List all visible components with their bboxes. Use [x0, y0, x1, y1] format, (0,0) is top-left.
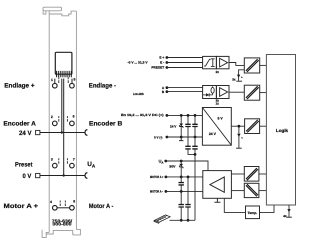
encoder input box U5 [203, 86, 217, 99]
ground tick 0V rail [179, 137, 183, 141]
wire UA to motor driver [166, 161, 208, 171]
terminal 1 [53, 83, 58, 88]
wire isolator U12 to logic [259, 190, 267, 192]
node 24V [166, 114, 169, 117]
junction dot 24V internal [61, 131, 63, 133]
svg-text:Preset: Preset [15, 162, 33, 169]
svg-text:24 V: 24 V [19, 130, 32, 137]
module top profile with latch notch [49, 11, 76, 16]
wire 0V feed [40, 175, 85, 177]
terminal 6 [70, 121, 75, 126]
svg-text:Encoder B: Encoder B [89, 121, 123, 128]
svg-text:24 V: 24 V [209, 132, 217, 136]
opto diode symbol [203, 94, 213, 96]
buffer triangle [220, 88, 228, 97]
terminal 4 [53, 206, 58, 211]
svg-text:1: 1 [51, 78, 53, 82]
svg-text:1x: 1x [216, 101, 220, 105]
isolator U4 [244, 58, 259, 73]
junction dots 0V rail [180, 136, 183, 139]
wire buffer to isolator 2 [229, 91, 244, 93]
svg-text:B: B [162, 90, 165, 94]
svg-text:6: 6 [73, 114, 75, 118]
svg-text:UA: UA [159, 159, 164, 164]
row4 link wire between terminals 4 and 8 [57, 207, 70, 209]
capacitor C6 motor- to rail [180, 191, 182, 220]
svg-text:-0 V ... 31,3 V: -0 V ... 31,3 V [128, 61, 149, 65]
DC/DC converter U8 [202, 108, 231, 146]
svg-text:UA: UA [87, 161, 96, 169]
svg-text:Motor A +: Motor A + [4, 203, 39, 210]
socket arc 0V [85, 173, 87, 179]
capacitor C7 motor+ to rail [187, 177, 189, 220]
svg-text:Low aktiv: Low aktiv [133, 92, 144, 96]
junction dot 0V internal [63, 174, 65, 176]
isolator U7 [244, 85, 259, 100]
terminal 7 [70, 163, 75, 168]
wire isolator3 to logic [260, 125, 267, 127]
wire PRESET [167, 67, 203, 69]
wire pin1 to terminal 1 [54, 79, 56, 84]
clamp marks row3 [59, 158, 68, 164]
wire A [167, 87, 203, 89]
wire B [167, 91, 203, 93]
wire pin5 to terminal 5 [71, 79, 73, 84]
svg-text:Temp.: Temp. [248, 211, 258, 215]
zener D1 24V branch [180, 115, 182, 137]
encoder buffer box U6 [216, 86, 229, 99]
module left edge [48, 11, 50, 233]
clamp marks row4 [60, 201, 65, 207]
driver triangle [210, 177, 224, 192]
isolator U9 [245, 119, 260, 134]
svg-text:E -: E - [160, 61, 164, 65]
capacitor C2 plates lower [185, 146, 190, 149]
svg-text:30V: 30V [169, 165, 176, 169]
input filter box U2 [203, 56, 217, 68]
node E- [166, 61, 169, 64]
ground G3 [214, 198, 220, 202]
svg-text:PRESET: PRESET [151, 66, 164, 70]
wire buffer to isolator 1 [229, 63, 244, 66]
svg-text:000-800: 000-800 [53, 222, 73, 227]
0V feed square terminal [36, 173, 40, 177]
svg-text:7: 7 [73, 157, 75, 161]
junction dot ground branch [238, 125, 241, 128]
node UA [164, 160, 167, 163]
socket arc 24V [85, 130, 87, 136]
wire driver out B [231, 190, 244, 192]
node MOTOR A- [165, 190, 168, 193]
ground G4 [288, 205, 290, 217]
svg-text:2x: 2x [216, 70, 220, 74]
svg-text:MOTOR A -: MOTOR A - [150, 190, 163, 194]
capacitor C3 branch to system rail [194, 115, 196, 220]
wire driver to temp sensor [224, 198, 245, 212]
svg-text:24 V: 24 V [170, 125, 177, 129]
terminal 5 [70, 83, 75, 88]
capacitor C4 plates lower [192, 146, 197, 149]
svg-text:Motor A -: Motor A - [89, 203, 114, 210]
24V feed square terminal [36, 130, 40, 134]
wire isolator1 to logic [260, 64, 267, 66]
node 0V [166, 136, 169, 139]
wire temp to logic [260, 205, 275, 212]
node MOTOR A+ [165, 176, 168, 179]
buffer box U3 [216, 56, 229, 68]
module top-left latch hook [43, 11, 46, 14]
isolator U12 [244, 183, 259, 197]
wire isolator ground stub [239, 70, 245, 81]
ground G1 [237, 75, 240, 78]
svg-text:3: 3 [51, 157, 53, 161]
wire 24V supply [167, 114, 203, 116]
motor driver U10 [203, 171, 232, 199]
wire isolator U11 to logic [259, 173, 267, 175]
module bottom left ledge [46, 232, 49, 234]
svg-text:3x: 3x [232, 77, 236, 81]
terminal 8 [70, 206, 75, 211]
module right edge [75, 11, 77, 230]
node B [166, 90, 169, 93]
junction dots bottom rail [180, 219, 183, 222]
schmitt symbol [204, 59, 211, 66]
junction dot join [194, 153, 197, 156]
node A [166, 86, 169, 89]
wire connector to 24V line [61, 79, 63, 133]
blade contact wedge [154, 215, 170, 223]
bottom system rail [170, 219, 196, 221]
wire E- [167, 62, 203, 64]
node E+ [166, 56, 169, 59]
svg-text:0 V (-): 0 V (-) [154, 136, 162, 140]
wire converter to isolator 3 [231, 125, 244, 127]
svg-text:Endlage -: Endlage - [89, 82, 116, 89]
ground G2 branch [238, 126, 240, 148]
connector housing on module [55, 52, 72, 74]
clamp marks row1 [59, 77, 68, 83]
temp sensor box [246, 206, 260, 219]
wire driver out A [231, 173, 244, 175]
svg-text:4: 4 [50, 200, 52, 204]
svg-text:Endlage +: Endlage + [4, 82, 35, 89]
buffer triangle [220, 58, 228, 67]
connector pin teeth [57, 71, 72, 77]
junction dots 24V rail [180, 114, 183, 117]
svg-text:E +: E + [159, 56, 164, 60]
svg-text:Logik: Logik [276, 128, 289, 133]
svg-text:4x: 4x [283, 214, 287, 218]
svg-text:8: 8 [73, 200, 75, 204]
terminal 2 [53, 121, 58, 126]
logic block U13 [266, 55, 295, 206]
clamp marks row2 [59, 116, 68, 122]
wire E+ [167, 57, 203, 59]
module bottom rail foot [42, 229, 80, 237]
wire isolator2 to logic [260, 92, 267, 94]
svg-text:5 V: 5 V [218, 117, 224, 121]
zener D2 30V branch [180, 161, 182, 177]
wire 0V supply [167, 136, 203, 138]
terminal 3 [53, 163, 58, 168]
svg-text:MOTOR A +: MOTOR A + [150, 175, 164, 179]
svg-text:Encoder A: Encoder A [3, 121, 36, 128]
wire MOTOR A- [166, 190, 203, 192]
wire MOTOR A+ [166, 176, 203, 178]
isolator U11 [244, 167, 259, 182]
wire connector to 0V line [63, 79, 65, 176]
svg-text:En 19,2 ... 31,3 V DC (+): En 19,2 ... 31,3 V DC (+) [121, 113, 164, 117]
capacitor C5 between motor lines [180, 177, 182, 192]
node PRESET [166, 66, 169, 69]
wire 24V feed [40, 132, 85, 134]
svg-text:0 V: 0 V [23, 173, 32, 180]
junction dot UA zener [180, 160, 183, 163]
capacitor C1 branch [188, 115, 195, 154]
module top bus-contact bar [43, 7, 62, 11]
svg-text:2: 2 [51, 115, 53, 119]
svg-text:5: 5 [73, 78, 75, 82]
